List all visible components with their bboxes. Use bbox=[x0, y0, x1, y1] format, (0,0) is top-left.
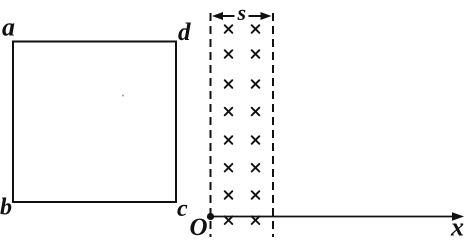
left dashed boundary line bbox=[210, 13, 212, 237]
x axis bbox=[211, 212, 465, 220]
flux mark row 6 bbox=[225, 164, 260, 172]
svg-text:a: a bbox=[2, 13, 15, 42]
svg-text:x: x bbox=[450, 213, 464, 238]
flux mark row 8 bbox=[225, 216, 260, 224]
origin dot bbox=[207, 213, 214, 220]
square loop abcd bbox=[13, 42, 176, 203]
flux mark row 3 bbox=[225, 80, 260, 88]
right dashed boundary line bbox=[272, 13, 274, 237]
flux mark row 5 bbox=[225, 136, 260, 144]
flux mark row 1 bbox=[225, 25, 260, 33]
width marker right arrow bbox=[249, 12, 272, 20]
svg-text:O: O bbox=[190, 214, 208, 237]
flux mark row 2 bbox=[225, 50, 260, 58]
svg-text:s: s bbox=[237, 0, 247, 25]
magnetic field x marks (into page) bbox=[225, 25, 260, 224]
svg-text:c: c bbox=[177, 196, 188, 222]
width marker left arrow bbox=[212, 12, 235, 20]
flux mark row 7 bbox=[225, 191, 260, 199]
svg-text:d: d bbox=[178, 19, 191, 46]
flux mark row 4 bbox=[225, 108, 260, 116]
svg-text:b: b bbox=[0, 195, 12, 221]
faint speckle inside loop bbox=[122, 95, 124, 97]
